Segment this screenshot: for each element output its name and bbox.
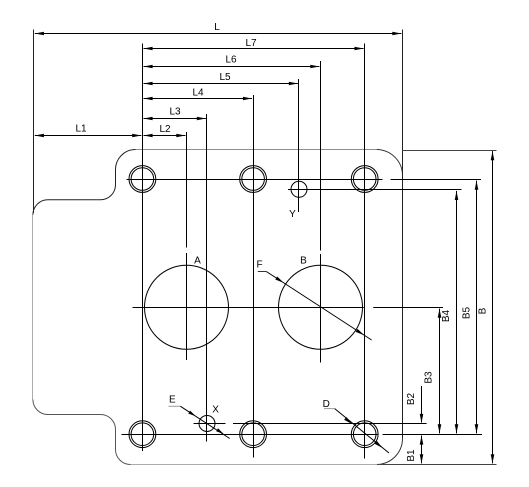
svg-text:L3: L3 xyxy=(169,107,181,118)
plate top edge xyxy=(136,149,378,151)
hole top-middle outer xyxy=(240,166,267,193)
svg-text:B: B xyxy=(478,307,489,314)
svg-text:L4: L4 xyxy=(192,88,204,99)
dimension L3 xyxy=(144,118,206,120)
hole X xyxy=(199,416,215,432)
svg-text:B2: B2 xyxy=(406,392,417,405)
centerline top hole row y=179 xyxy=(127,179,383,181)
hole bottom-right inner xyxy=(353,423,376,446)
dimension L7 xyxy=(144,48,364,50)
hole bottom-left outer xyxy=(129,421,156,448)
hole bottom-middle outer xyxy=(240,421,267,448)
dimension B5 xyxy=(476,181,478,434)
extension line left edge (L, L1) xyxy=(33,30,35,214)
leader F xyxy=(258,271,267,273)
hole top-right inner xyxy=(353,168,376,191)
dimension L4 xyxy=(144,98,253,100)
svg-text:B5: B5 xyxy=(462,306,473,319)
svg-text:A: A xyxy=(194,256,201,267)
plate bottom-left S-contour xyxy=(33,400,131,465)
dimension B3 xyxy=(439,309,441,434)
centerline circle A vertical xyxy=(186,132,188,248)
centerline circle B vertical xyxy=(320,61,322,251)
plate bottom-right corner arc xyxy=(377,439,403,465)
svg-text:F: F xyxy=(256,260,262,271)
hole top-left inner xyxy=(131,168,154,191)
dimension L6 xyxy=(144,66,320,68)
svg-text:B4: B4 xyxy=(441,309,452,322)
hole bottom-right outer xyxy=(351,421,378,448)
centerline bottom hole row y=434.3 xyxy=(122,434,379,436)
centerline hole X column x=207 xyxy=(206,114,208,442)
hole Y xyxy=(291,181,307,197)
plate bottom edge extension line (right, for B dimension) xyxy=(377,464,497,466)
svg-text:Y: Y xyxy=(289,209,296,220)
dimension B1 xyxy=(421,436,423,464)
hole bottom-middle inner xyxy=(242,423,265,446)
plate left edge xyxy=(32,215,34,400)
dimension L5 xyxy=(144,83,298,85)
svg-text:L: L xyxy=(214,22,220,33)
centerline hole Y horizontal y=189 xyxy=(288,189,462,191)
dimension B4 xyxy=(456,191,458,434)
dimension L1 xyxy=(35,135,142,137)
hole top-left outer xyxy=(129,166,156,193)
circle B (large bore) xyxy=(279,265,363,349)
leader D xyxy=(324,408,335,410)
hole top-right outer xyxy=(351,166,378,193)
dimension L2 xyxy=(144,135,186,137)
svg-text:B3: B3 xyxy=(423,371,434,384)
svg-text:L6: L6 xyxy=(225,55,237,66)
svg-text:L7: L7 xyxy=(245,38,257,49)
leader E xyxy=(169,405,181,407)
svg-text:B: B xyxy=(300,256,307,267)
centerline circles A B horizontal y=307 xyxy=(133,307,364,309)
circle A (large bore) xyxy=(145,265,229,349)
svg-text:X: X xyxy=(212,404,219,415)
extension line plate top edge (B) xyxy=(403,150,497,152)
hole bottom-left inner xyxy=(131,423,154,446)
centerline hole X horizontal y=423.5 xyxy=(194,423,226,425)
centerline left hole column x=142 xyxy=(142,44,144,452)
dimension B2 (single outside arrow to hole X line) xyxy=(421,386,423,423)
plate right edge + extension line (L, B) xyxy=(402,30,404,439)
centerline middle hole column x=253 xyxy=(253,95,255,458)
centerline right hole column x=364.7 xyxy=(364,44,366,459)
centerline hole Y vertical x=299 xyxy=(298,79,300,212)
dimension L xyxy=(35,33,402,35)
svg-text:L1: L1 xyxy=(75,124,87,135)
plate bottom edge xyxy=(131,464,378,466)
plate top-left S-contour xyxy=(33,150,136,215)
svg-text:B1: B1 xyxy=(406,449,417,462)
svg-text:L5: L5 xyxy=(219,72,231,83)
svg-text:E: E xyxy=(169,394,176,405)
plate top-right corner arc xyxy=(377,150,403,176)
svg-text:L2: L2 xyxy=(159,124,171,135)
hole top-middle inner xyxy=(242,168,265,191)
dimension B xyxy=(492,151,494,463)
